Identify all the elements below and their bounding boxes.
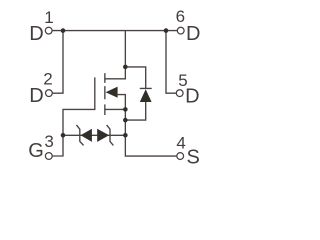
svg-text:4: 4: [176, 134, 185, 153]
svg-text:1: 1: [44, 8, 53, 27]
svg-text:2: 2: [43, 70, 52, 89]
svg-text:D: D: [29, 85, 43, 107]
svg-text:D: D: [186, 23, 200, 45]
svg-text:5: 5: [178, 71, 187, 90]
svg-text:3: 3: [44, 132, 53, 151]
svg-text:6: 6: [176, 7, 185, 26]
svg-text:S: S: [187, 146, 200, 168]
svg-text:G: G: [28, 140, 44, 162]
svg-text:D: D: [29, 23, 43, 45]
